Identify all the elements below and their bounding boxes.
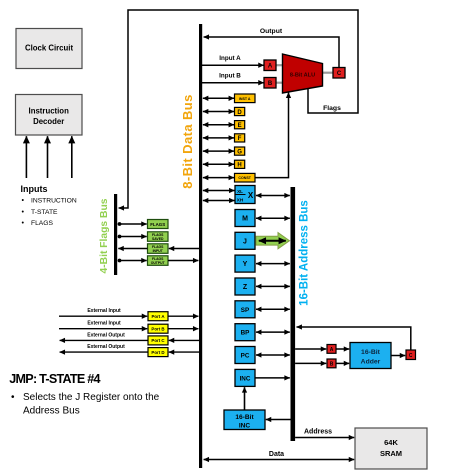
svg-text:SAVED: SAVED [152,237,164,241]
svg-text:Port A: Port A [151,314,165,319]
svg-text:INC: INC [240,375,251,382]
svg-text:PC: PC [241,353,250,360]
svg-text:G: G [237,149,242,155]
svg-text:J: J [243,238,247,245]
svg-text:Inputs: Inputs [21,184,48,194]
svg-text:FLAGS: FLAGS [31,220,53,227]
svg-text:8-Bit ALU: 8-Bit ALU [290,73,315,79]
svg-text:Z: Z [243,284,248,291]
svg-text:SP: SP [241,307,249,314]
svg-text:16-Bit Address Bus: 16-Bit Address Bus [299,200,311,306]
svg-text:INST A: INST A [239,97,251,101]
svg-text:XL: XL [237,189,243,194]
svg-text:X: X [248,191,254,200]
svg-text:16-Bit: 16-Bit [361,349,381,356]
svg-text:Address: Address [304,429,332,436]
svg-text:BP: BP [241,330,250,337]
svg-text:Port B: Port B [151,327,164,332]
svg-text:16-Bit: 16-Bit [235,414,254,421]
svg-text:Adder: Adder [361,359,381,366]
svg-text:Input A: Input A [219,55,241,62]
svg-text:CONST: CONST [238,176,251,180]
svg-text:External Input: External Input [87,321,121,327]
svg-text:Flags: Flags [323,105,341,112]
svg-text:Input B: Input B [219,72,241,79]
svg-text:INC: INC [239,423,251,430]
svg-text:M: M [242,216,248,223]
svg-text:Port C: Port C [151,338,165,343]
svg-text:A: A [330,347,334,353]
svg-text:XH: XH [237,198,244,203]
svg-text:External Output: External Output [87,344,125,350]
svg-text:H: H [237,163,241,169]
svg-text:Data: Data [269,451,284,458]
svg-text:F: F [238,136,242,142]
svg-text:External Input: External Input [87,308,121,314]
svg-text:C: C [409,353,413,359]
svg-text:64K: 64K [384,438,398,447]
svg-text:JMP: T-STATE #4: JMP: T-STATE #4 [9,372,100,386]
svg-text:E: E [238,123,242,129]
svg-text:D: D [237,110,242,116]
svg-text:OUTPUT: OUTPUT [151,261,166,265]
svg-text:Selects the J Register onto th: Selects the J Register onto the [23,392,160,403]
svg-text:A: A [268,64,273,70]
svg-text:INPUT: INPUT [153,249,164,253]
svg-text:8-Bit Data Bus: 8-Bit Data Bus [180,94,195,188]
svg-text:Decoder: Decoder [33,117,64,126]
svg-text:B: B [268,81,273,87]
svg-text:FLAGS: FLAGS [150,222,165,227]
svg-text:INSTRUCTION: INSTRUCTION [31,198,77,205]
svg-text:Port D: Port D [151,350,164,355]
svg-text:Y: Y [243,261,248,268]
svg-text:Output: Output [260,28,283,35]
svg-text:4-Bit Flags Bus: 4-Bit Flags Bus [99,198,110,273]
svg-text:T-STATE: T-STATE [31,209,58,216]
svg-text:B: B [330,362,334,368]
svg-text:SRAM: SRAM [380,449,402,458]
svg-text:C: C [337,71,342,77]
svg-text:External Output: External Output [87,332,125,338]
svg-text:Address Bus: Address Bus [23,406,80,417]
svg-text:Instruction: Instruction [29,107,70,116]
svg-text:Clock Circuit: Clock Circuit [25,44,73,53]
svg-text:•: • [11,392,15,403]
